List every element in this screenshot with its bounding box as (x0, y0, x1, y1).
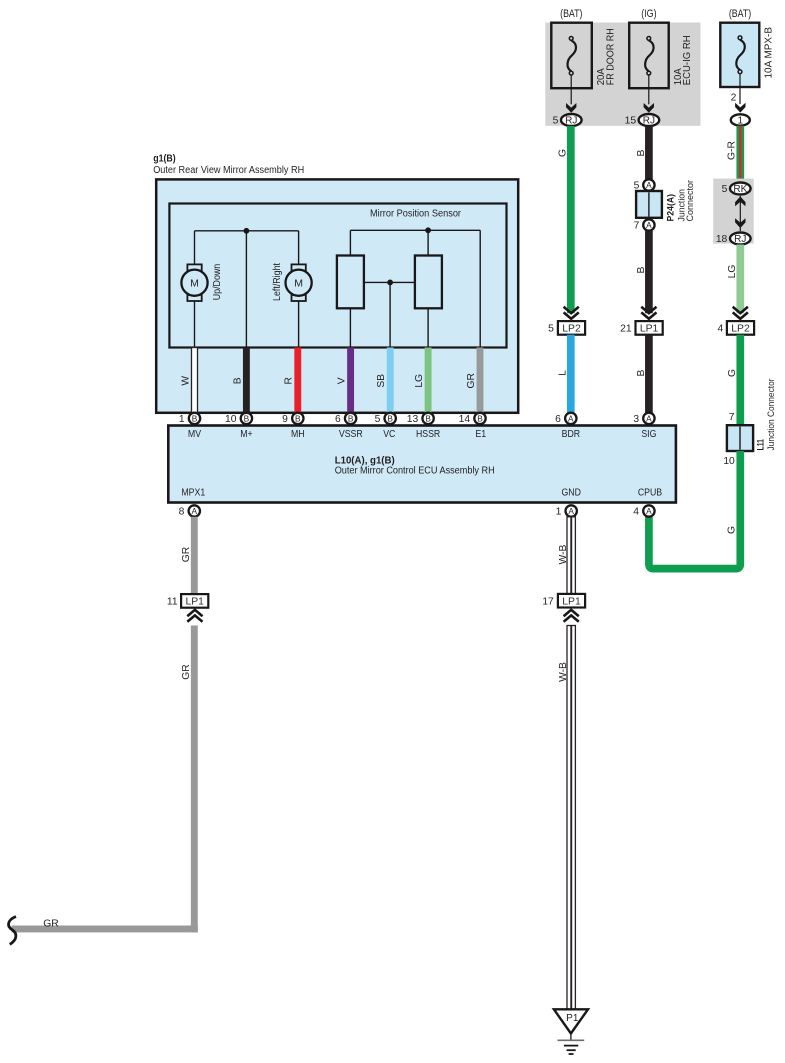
svg-text:GR: GR (181, 664, 192, 679)
arrow into RJ 5 (566, 103, 576, 113)
page connector arrow below LP1 left (187, 610, 202, 616)
svg-text:LP1: LP1 (185, 597, 204, 608)
page connector arrow into LP1 (641, 307, 656, 313)
continuation squiggle (9, 917, 16, 945)
svg-text:W-B: W-B (558, 662, 569, 682)
svg-text:4: 4 (717, 324, 723, 335)
svg-text:RJ: RJ (643, 115, 655, 126)
pin B (pin 13) (422, 413, 433, 424)
svg-text:B: B (244, 413, 250, 423)
connector 4 LP2 (727, 321, 754, 335)
svg-text:(BAT): (BAT) (729, 8, 751, 20)
svg-text:G: G (557, 149, 568, 157)
svg-text:RK: RK (733, 184, 747, 195)
svg-text:G-R: G-R (727, 141, 738, 160)
page connector arrow into LP2 right (733, 307, 748, 313)
junction connector L11 (727, 425, 753, 451)
svg-text:6: 6 (555, 414, 561, 425)
wire RK to RJ (739, 196, 741, 231)
svg-text:5: 5 (548, 324, 554, 335)
wire fuse2 tail (648, 75, 650, 104)
svg-text:GR: GR (466, 373, 477, 388)
wire sensor2 top lead (427, 230, 429, 255)
svg-text:(IG): (IG) (641, 8, 656, 20)
wire LG (pale green) (736, 245, 744, 314)
svg-text:1: 1 (179, 414, 185, 425)
wire sensor1 top lead (349, 230, 351, 255)
wire G (green) (567, 126, 575, 313)
page connector arrow into LP2 (564, 307, 579, 313)
page connector arrow below LP1 right (564, 610, 579, 616)
wire motor bus (195, 230, 299, 232)
pin B (pin 1) (189, 413, 200, 424)
svg-text:11: 11 (167, 597, 178, 608)
svg-text:17: 17 (542, 597, 554, 608)
svg-text:5: 5 (634, 180, 640, 191)
wire sensor1 bottom lead (349, 308, 351, 347)
svg-text:GR: GR (43, 918, 58, 929)
svg-text:6: 6 (335, 414, 341, 425)
wire SB (sky blue) (387, 348, 394, 413)
wire GR long (191, 626, 198, 933)
svg-text:ECU-IG RH: ECU-IG RH (682, 35, 693, 85)
svg-text:A: A (646, 506, 652, 516)
connector RJ (pin 18) (730, 233, 751, 245)
svg-text:4: 4 (633, 506, 639, 517)
svg-text:RJ: RJ (565, 115, 577, 126)
svg-text:MV: MV (188, 429, 201, 440)
svg-text:HSSR: HSSR (416, 429, 440, 440)
svg-text:9: 9 (282, 414, 288, 425)
svg-text:W: W (180, 376, 191, 386)
relay block background panel (545, 23, 700, 126)
svg-text:Outer Mirror Control ECU Assem: Outer Mirror Control ECU Assembly RH (335, 465, 495, 476)
wire W-B from GND (567, 517, 575, 594)
svg-text:E1: E1 (475, 429, 486, 440)
svg-text:LP2: LP2 (731, 324, 750, 335)
svg-text:Mirror Position Sensor: Mirror Position Sensor (370, 209, 462, 220)
ECU L10(A) g1(B) Outer Mirror Control ECU Assembly RH (168, 426, 676, 503)
ground P1 (554, 1009, 588, 1033)
svg-text:GR: GR (181, 547, 192, 562)
wire B mirror (243, 348, 250, 413)
svg-text:FR DOOR RH: FR DOOR RH (605, 28, 616, 85)
svg-text:BDR: BDR (562, 429, 581, 440)
arrow down to RJ (735, 218, 745, 228)
svg-text:B: B (425, 413, 431, 423)
motor M2 Left/Right (292, 264, 306, 270)
wire W (white) (192, 348, 198, 413)
wire E1 drop (479, 230, 481, 347)
svg-text:7: 7 (634, 220, 640, 231)
svg-text:B: B (295, 413, 301, 423)
svg-text:MH: MH (291, 429, 305, 440)
wire G from L11 to CPUB (649, 451, 740, 569)
svg-text:A: A (192, 506, 198, 516)
pin A P24 bottom (643, 219, 654, 230)
pin B (pin 14) (474, 413, 485, 424)
wire motor1 top lead (194, 231, 196, 265)
svg-text:B: B (636, 266, 647, 273)
svg-text:10: 10 (225, 414, 237, 425)
wire sensor2 bottom lead (427, 308, 429, 347)
outer rear view mirror assembly box (156, 179, 518, 412)
pin A GND (566, 505, 577, 516)
pin B (pin 10) (241, 413, 252, 424)
svg-text:5: 5 (375, 414, 381, 425)
svg-text:LG: LG (727, 265, 738, 279)
svg-text:(BAT): (BAT) (560, 8, 582, 20)
svg-text:G: G (727, 526, 738, 534)
wire B lower (645, 335, 653, 413)
svg-text:A: A (646, 413, 652, 423)
wire B middle (645, 231, 653, 313)
svg-text:14: 14 (459, 414, 471, 425)
pin B (pin 6) (345, 413, 356, 424)
svg-text:M: M (190, 277, 199, 289)
arrow into pin 1 (735, 103, 745, 113)
connector 5 LP2 (558, 321, 585, 335)
svg-text:P24(A): P24(A) (666, 194, 677, 222)
svg-text:LP1: LP1 (562, 597, 581, 608)
svg-text:GND: GND (562, 488, 581, 499)
pin A P24 top (643, 179, 654, 190)
svg-text:SIG: SIG (641, 429, 656, 440)
fuse 10A ECU-IG RH (629, 23, 669, 89)
arrow into RJ 15 (644, 103, 654, 113)
wire sensor middle link (364, 281, 415, 283)
position sensor element 1 (337, 256, 364, 309)
pin A MPX1 (189, 505, 200, 516)
wire R (red) (294, 348, 301, 413)
svg-text:7: 7 (729, 412, 735, 423)
svg-text:L: L (557, 370, 568, 376)
wire M+ drop (245, 231, 247, 348)
wire motor2 top lead (298, 231, 300, 265)
wire fuse1 tail (570, 75, 572, 104)
svg-text:W-B: W-B (558, 544, 569, 564)
connector RK (pin 5) (730, 183, 751, 195)
svg-text:RJ: RJ (734, 234, 746, 245)
connector RJ (pin 5) (561, 114, 582, 126)
wire motor1 bottom lead (194, 301, 196, 348)
wire VC drop (389, 282, 391, 347)
wire GR mirror (477, 348, 484, 413)
wire LG mirror (425, 348, 432, 413)
pin A SIG (643, 413, 654, 424)
svg-text:G: G (727, 369, 738, 377)
svg-text:LG: LG (414, 374, 425, 388)
svg-text:10: 10 (723, 456, 735, 467)
pin A BDR (565, 413, 576, 424)
relay block background panel 2 (713, 179, 754, 244)
svg-text:18: 18 (716, 234, 728, 245)
node junction sensor2 bus (425, 227, 431, 233)
svg-text:B: B (636, 369, 647, 376)
connector 17 LP1 (558, 594, 585, 608)
svg-text:VC: VC (383, 429, 395, 440)
svg-text:Connector: Connector (685, 180, 696, 222)
svg-text:M+: M+ (240, 429, 252, 440)
mirror position sensor inner box (169, 204, 506, 348)
svg-text:A: A (646, 180, 652, 190)
connector 21 LP1 (636, 321, 663, 335)
svg-text:R: R (284, 377, 295, 384)
svg-text:8: 8 (179, 506, 185, 517)
svg-text:15: 15 (625, 115, 637, 126)
svg-text:5: 5 (553, 115, 559, 126)
svg-text:21: 21 (620, 324, 632, 335)
wire B from RJ15 (645, 126, 653, 179)
svg-text:P1: P1 (566, 1013, 579, 1024)
node junction VC (387, 280, 393, 286)
svg-text:1: 1 (738, 115, 744, 126)
arrow up to RK (735, 197, 745, 207)
svg-text:A: A (646, 220, 652, 230)
svg-text:3: 3 (633, 414, 639, 425)
svg-text:B: B (348, 413, 354, 423)
svg-text:13: 13 (407, 414, 419, 425)
connector RJ (pin 15) (639, 114, 660, 126)
wire G to L11 (736, 335, 744, 426)
svg-text:B: B (477, 413, 483, 423)
svg-text:g1(B): g1(B) (153, 154, 176, 165)
svg-text:B: B (232, 377, 243, 384)
svg-text:A: A (568, 413, 574, 423)
svg-text:B: B (387, 413, 393, 423)
svg-text:B: B (636, 149, 647, 156)
svg-text:Up/Down: Up/Down (212, 264, 223, 301)
wire fuse3 tail (739, 74, 741, 104)
wire GR horizontal (12, 926, 198, 933)
svg-text:Left/Right: Left/Right (272, 263, 283, 301)
connector pin 1 oval (731, 114, 750, 125)
svg-text:B: B (192, 413, 198, 423)
svg-text:Junction Connector: Junction Connector (766, 379, 777, 451)
svg-text:A: A (568, 506, 574, 516)
svg-text:M: M (294, 277, 303, 289)
wire L (blue) (567, 335, 575, 413)
wire G-R (green-red) (736, 126, 744, 183)
svg-text:2: 2 (731, 93, 737, 104)
wire motor2 bottom lead (298, 301, 300, 348)
node junction M+ bus (244, 228, 250, 234)
junction connector P24(A) (636, 191, 662, 218)
wire W-B long (567, 626, 575, 1010)
svg-text:5: 5 (722, 184, 728, 195)
pin B (pin 5) (385, 413, 396, 424)
svg-text:V: V (337, 377, 348, 384)
svg-text:L11: L11 (755, 438, 766, 450)
svg-text:SB: SB (376, 374, 387, 388)
svg-text:10A MPX-B: 10A MPX-B (764, 27, 775, 79)
wire sensor bus (350, 229, 480, 231)
pin A CPUB (643, 505, 654, 516)
wire GR from MPX1 (191, 517, 198, 595)
fuse 20A FR DOOR RH (551, 23, 592, 89)
svg-text:MPX1: MPX1 (181, 488, 205, 499)
position sensor element 2 (415, 256, 442, 309)
svg-text:LP1: LP1 (640, 324, 659, 335)
svg-text:Outer Rear View Mirror Assembl: Outer Rear View Mirror Assembly RH (153, 165, 304, 176)
svg-text:LP2: LP2 (562, 324, 581, 335)
wire V (violet) (347, 348, 354, 413)
pin B (pin 9) (292, 413, 303, 424)
svg-text:CPUB: CPUB (638, 488, 662, 499)
connector 11 LP1 (181, 594, 208, 608)
svg-text:1: 1 (556, 506, 562, 517)
fuse 10A MPX-B (720, 23, 759, 87)
motor M1 Up/Down (187, 264, 201, 270)
svg-text:VSSR: VSSR (339, 429, 363, 440)
